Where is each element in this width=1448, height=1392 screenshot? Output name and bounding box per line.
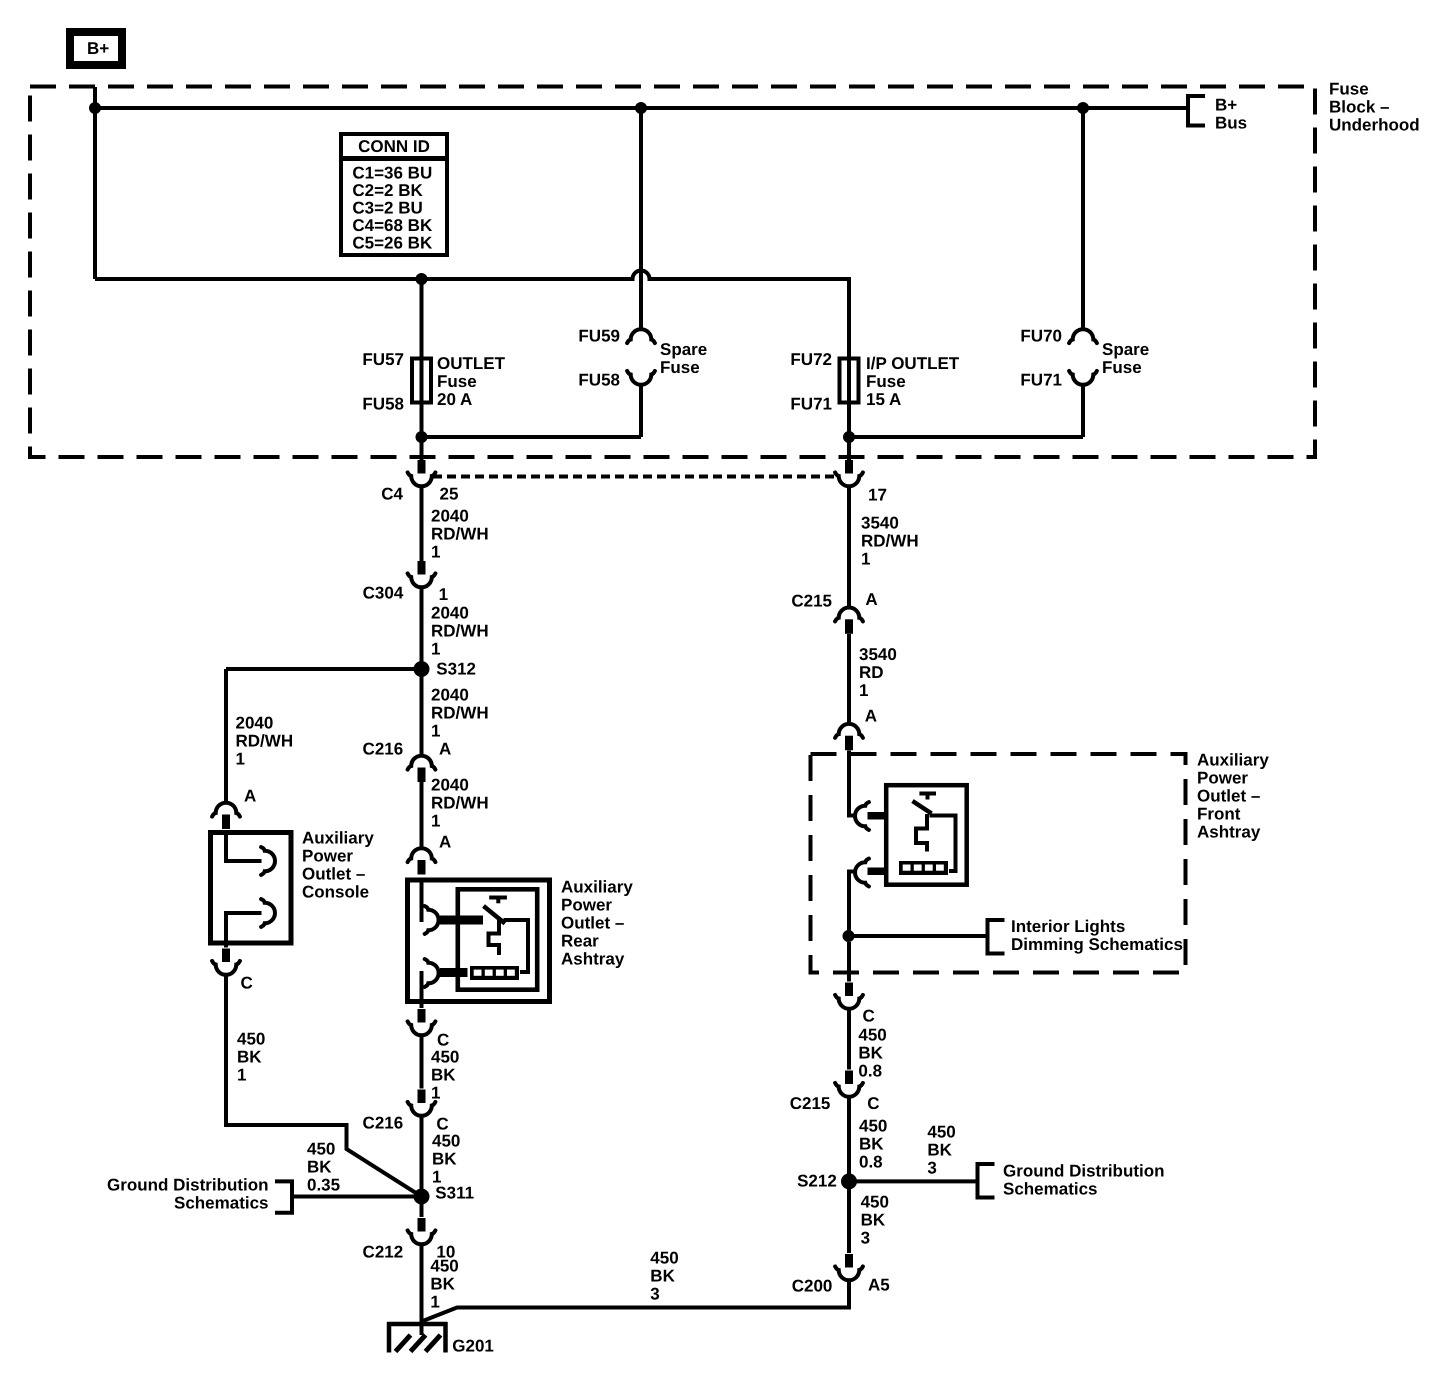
svg-text:B+: B+ <box>1215 95 1237 114</box>
svg-text:RD/WH: RD/WH <box>236 731 294 750</box>
wire 2040 RD/WH 1 <box>420 486 424 562</box>
svg-text:1: 1 <box>431 811 440 830</box>
ground distribution schematics left bracket <box>275 1181 292 1212</box>
svg-text:B+: B+ <box>87 39 109 58</box>
svg-text:FU72: FU72 <box>790 350 832 369</box>
connector C216 pin A <box>408 756 436 770</box>
svg-text:FU59: FU59 <box>578 327 620 346</box>
ground G201 <box>387 1322 447 1327</box>
svg-text:Power: Power <box>561 895 612 914</box>
svg-text:Dimming Schematics: Dimming Schematics <box>1011 935 1183 954</box>
front ashtray terminal lower <box>855 859 869 887</box>
rear ashtray terminal lower <box>425 959 439 987</box>
connector C4 pin 17 <box>845 460 853 474</box>
svg-text:450: 450 <box>430 1256 458 1275</box>
interior lights dimming schematics bracket <box>988 920 1005 954</box>
svg-text:1: 1 <box>431 639 440 658</box>
svg-text:450: 450 <box>859 1116 887 1135</box>
rear ashtray exit wire <box>420 971 424 1008</box>
svg-text:BK: BK <box>237 1047 262 1066</box>
CONN ID table <box>341 134 447 255</box>
svg-text:A: A <box>439 832 451 851</box>
svg-text:450: 450 <box>237 1029 265 1048</box>
fuse FU72 I/P OUTLET 15 A <box>840 359 859 403</box>
svg-text:Ashtray: Ashtray <box>561 949 625 968</box>
svg-text:Fuse: Fuse <box>437 372 477 391</box>
svg-text:C: C <box>241 973 253 992</box>
svg-text:A: A <box>865 706 877 725</box>
connector C4 dotted span line <box>433 475 837 479</box>
auxiliary power outlet rear ashtray <box>408 880 550 1002</box>
connector C front ashtray <box>845 983 853 997</box>
svg-text:1: 1 <box>236 749 245 768</box>
svg-text:2040: 2040 <box>431 775 469 794</box>
power symbol B+ <box>70 32 122 65</box>
svg-text:RD/WH: RD/WH <box>431 524 489 543</box>
connector C212 pin 10 <box>418 1218 426 1232</box>
svg-text:BK: BK <box>859 1134 884 1153</box>
junction <box>89 102 101 114</box>
svg-text:Bus: Bus <box>1215 113 1247 132</box>
svg-text:3: 3 <box>861 1228 870 1247</box>
svg-text:C2=2 BK: C2=2 BK <box>352 181 423 200</box>
svg-text:Console: Console <box>302 882 369 901</box>
svg-text:A: A <box>439 739 451 758</box>
svg-text:Power: Power <box>302 846 353 865</box>
svg-text:2040: 2040 <box>431 685 469 704</box>
svg-text:S311: S311 <box>435 1183 474 1202</box>
svg-text:S212: S212 <box>797 1171 837 1190</box>
front ashtray thermal contact <box>919 792 936 796</box>
svg-text:Outlet –: Outlet – <box>1197 786 1260 805</box>
junction below FU57 <box>416 431 428 443</box>
front ashtray heating element <box>899 861 948 875</box>
svg-text:C5=26 BK: C5=26 BK <box>352 233 433 252</box>
svg-text:C: C <box>867 1094 879 1113</box>
svg-text:Fuse: Fuse <box>1329 79 1369 98</box>
svg-text:Ground Distribution: Ground Distribution <box>107 1175 268 1194</box>
svg-text:Ground Distribution: Ground Distribution <box>1003 1162 1164 1181</box>
svg-text:Spare: Spare <box>1102 340 1149 359</box>
wire 3540 RD 1 <box>847 634 851 725</box>
connector C304 pin 1 <box>418 561 426 575</box>
wire 450 BK 1 console down <box>226 974 422 1197</box>
front ashtray entry wire <box>849 751 854 816</box>
svg-text:450: 450 <box>650 1248 678 1267</box>
svg-text:Ashtray: Ashtray <box>1197 822 1261 841</box>
console terminal upper <box>261 847 275 875</box>
svg-text:20 A: 20 A <box>437 390 472 409</box>
wire B+ bus bar <box>95 106 1188 110</box>
rear ashtray element link <box>504 920 529 972</box>
svg-text:FU70: FU70 <box>1020 327 1062 346</box>
svg-text:Outlet –: Outlet – <box>561 913 624 932</box>
svg-text:OUTLET: OUTLET <box>437 354 506 373</box>
fuse block underhood dashed box <box>30 87 1315 458</box>
splice S312 <box>414 661 430 677</box>
svg-text:25: 25 <box>440 484 459 503</box>
svg-text:Fuse: Fuse <box>660 358 700 377</box>
svg-text:1: 1 <box>430 1292 439 1311</box>
svg-text:C304: C304 <box>363 583 404 602</box>
wire left feed down from fuse block top <box>93 87 97 279</box>
svg-text:A: A <box>865 590 877 609</box>
console entry wire <box>226 835 262 861</box>
svg-text:0.8: 0.8 <box>858 1061 882 1080</box>
connector A front ashtray <box>835 724 863 738</box>
junction below FU72 <box>843 431 855 443</box>
svg-text:1: 1 <box>859 681 868 700</box>
rear ashtray switch <box>484 906 506 924</box>
svg-text:I/P OUTLET: I/P OUTLET <box>866 354 960 373</box>
wire to connector C front <box>847 942 851 982</box>
svg-text:15 A: 15 A <box>866 390 901 409</box>
svg-text:1: 1 <box>861 549 870 568</box>
svg-text:450: 450 <box>307 1139 335 1158</box>
wire 2040 RD/WH 1 <box>420 782 424 849</box>
svg-text:2040: 2040 <box>236 713 274 732</box>
wire 450 BK 1 to ground <box>420 1244 424 1336</box>
svg-text:Fuse: Fuse <box>1102 358 1142 377</box>
rear ashtray heating element <box>470 966 519 980</box>
svg-text:C216: C216 <box>363 1113 404 1132</box>
spare fuse FU59/FU58 <box>635 102 647 114</box>
svg-text:2040: 2040 <box>431 603 469 622</box>
svg-text:Schematics: Schematics <box>1003 1180 1098 1199</box>
svg-text:BK: BK <box>432 1149 457 1168</box>
svg-text:Interior Lights: Interior Lights <box>1011 917 1125 936</box>
connector C200 pin A5 <box>845 1254 853 1268</box>
rear ashtray bimetal latch <box>489 917 500 955</box>
wire to ground distribution bracket <box>849 1179 978 1183</box>
front ashtray exit wire <box>849 872 854 937</box>
console terminal lower <box>261 899 275 927</box>
console exit wire <box>226 913 262 948</box>
connector C216 pin C <box>418 1090 426 1104</box>
svg-text:2040: 2040 <box>431 506 469 525</box>
svg-text:FU71: FU71 <box>1020 371 1062 390</box>
ground distribution schematics right bracket <box>978 1164 995 1198</box>
wire feed bus with crossover hop <box>95 271 849 359</box>
svg-text:C215: C215 <box>790 1094 831 1113</box>
svg-text:450: 450 <box>861 1192 889 1211</box>
svg-text:1: 1 <box>431 1083 440 1102</box>
fuse FU57 OUTLET 20 A <box>420 281 424 358</box>
svg-text:0.35: 0.35 <box>307 1175 340 1194</box>
svg-text:C: C <box>863 1006 875 1025</box>
rear ashtray entry wire <box>420 882 424 922</box>
svg-text:450: 450 <box>432 1131 460 1150</box>
svg-text:BK: BK <box>430 1274 455 1293</box>
svg-text:RD/WH: RD/WH <box>431 793 489 812</box>
svg-text:450: 450 <box>431 1047 459 1066</box>
svg-text:Spare: Spare <box>660 340 707 359</box>
wire branch 2040 RD/WH 1 <box>224 669 228 804</box>
svg-text:Underhood: Underhood <box>1329 115 1420 134</box>
svg-text:1: 1 <box>439 585 448 604</box>
svg-text:1: 1 <box>431 542 440 561</box>
svg-text:Auxiliary: Auxiliary <box>1197 750 1269 769</box>
front ashtray element link <box>930 816 956 872</box>
svg-text:Block –: Block – <box>1329 97 1389 116</box>
svg-text:BK: BK <box>307 1157 332 1176</box>
svg-text:Rear: Rear <box>561 931 599 950</box>
svg-text:A5: A5 <box>868 1275 890 1294</box>
wire fuse bottom bus right <box>849 435 1083 439</box>
svg-text:3540: 3540 <box>859 645 897 664</box>
svg-text:450: 450 <box>927 1122 955 1141</box>
svg-text:17: 17 <box>868 485 887 504</box>
svg-text:C216: C216 <box>363 739 404 758</box>
svg-text:G201: G201 <box>452 1336 494 1355</box>
svg-text:Schematics: Schematics <box>174 1193 269 1212</box>
svg-text:1: 1 <box>431 721 440 740</box>
front ashtray switch <box>913 801 932 814</box>
connector C4 pin 25 <box>418 460 426 474</box>
svg-text:C212: C212 <box>363 1242 404 1261</box>
svg-text:C4: C4 <box>381 484 403 503</box>
svg-text:FU57: FU57 <box>362 350 404 369</box>
svg-text:3540: 3540 <box>861 513 899 532</box>
connector C rear ashtray <box>418 1009 426 1023</box>
svg-text:0.8: 0.8 <box>859 1152 883 1171</box>
svg-text:A: A <box>244 786 256 805</box>
wire branch to console outlet <box>226 667 417 671</box>
wire 3540 RD/WH 1 <box>847 486 851 609</box>
front ashtray bimetal latch <box>916 814 927 852</box>
rear ashtray thermal contact <box>489 896 507 900</box>
svg-text:Auxiliary: Auxiliary <box>561 877 633 896</box>
connector C215 pin C <box>845 1071 853 1085</box>
rear ashtray terminal upper <box>425 906 439 934</box>
wire 2040 RD/WH 1 <box>420 587 424 757</box>
svg-text:BK: BK <box>431 1065 456 1084</box>
svg-text:S312: S312 <box>436 659 476 678</box>
junction interior lights tap <box>843 930 855 942</box>
svg-text:BK: BK <box>650 1266 675 1285</box>
svg-text:450: 450 <box>858 1025 886 1044</box>
spare fuse FU70/FU71 <box>1077 102 1089 114</box>
junction node above FU57 <box>416 273 428 285</box>
svg-text:RD/WH: RD/WH <box>861 531 919 550</box>
svg-text:3: 3 <box>650 1284 659 1303</box>
svg-text:BK: BK <box>858 1043 883 1062</box>
connector B+ Bus <box>1188 96 1205 126</box>
wire fuse bottom bus left <box>422 435 642 439</box>
svg-text:RD/WH: RD/WH <box>431 703 489 722</box>
connector A rear ashtray <box>408 848 436 862</box>
front ashtray inner box <box>886 785 967 885</box>
splice S212 <box>841 1173 857 1189</box>
svg-text:C200: C200 <box>792 1277 833 1296</box>
connector C console <box>222 949 230 963</box>
svg-text:Fuse: Fuse <box>866 372 906 391</box>
svg-text:FU71: FU71 <box>790 394 832 413</box>
wire 450 BK 1 <box>420 1115 424 1217</box>
svg-text:BK: BK <box>927 1140 952 1159</box>
wire 450 BK 0.8 <box>847 1008 851 1070</box>
svg-text:FU58: FU58 <box>362 394 404 413</box>
svg-text:C3=2 BU: C3=2 BU <box>352 198 422 217</box>
svg-text:1: 1 <box>237 1065 246 1084</box>
svg-text:C4=68 BK: C4=68 BK <box>352 216 433 235</box>
svg-text:FU58: FU58 <box>578 371 620 390</box>
connector C215 pin A <box>835 608 863 622</box>
svg-text:C215: C215 <box>791 591 832 610</box>
front ashtray terminal upper <box>855 802 869 830</box>
svg-text:RD: RD <box>859 663 884 682</box>
auxiliary power outlet console <box>211 833 292 944</box>
wire 450 BK 0.8 <box>847 1096 851 1253</box>
svg-text:Power: Power <box>1197 768 1248 787</box>
svg-text:CONN ID: CONN ID <box>358 137 430 156</box>
svg-text:C1=36 BU: C1=36 BU <box>352 163 432 182</box>
svg-text:Outlet –: Outlet – <box>302 864 365 883</box>
svg-text:3: 3 <box>927 1158 936 1177</box>
svg-text:RD/WH: RD/WH <box>431 621 489 640</box>
svg-text:Auxiliary: Auxiliary <box>302 828 374 847</box>
splice S311 <box>414 1189 430 1205</box>
connector A console <box>212 803 240 817</box>
wire to interior lights bracket <box>849 934 988 938</box>
wire 450 BK 3 to ground <box>422 1280 850 1322</box>
svg-text:BK: BK <box>861 1210 886 1229</box>
auxiliary power outlet front ashtray dashed box <box>811 754 1186 973</box>
svg-text:Front: Front <box>1197 804 1241 823</box>
wire 450 BK 1 <box>420 1035 424 1089</box>
